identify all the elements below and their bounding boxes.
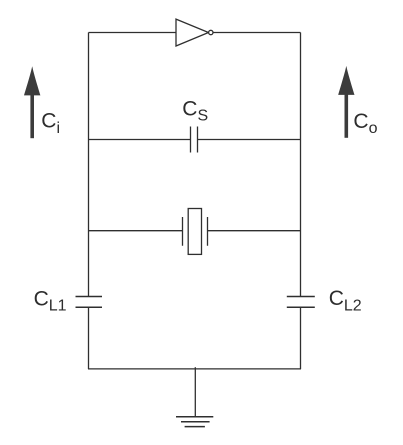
svg-text:CS: CS [182, 97, 208, 124]
svg-text:CL1: CL1 [34, 287, 67, 314]
svg-text:CL2: CL2 [329, 287, 362, 314]
svg-text:Ci: Ci [41, 109, 60, 137]
svg-text:Co: Co [353, 110, 377, 137]
